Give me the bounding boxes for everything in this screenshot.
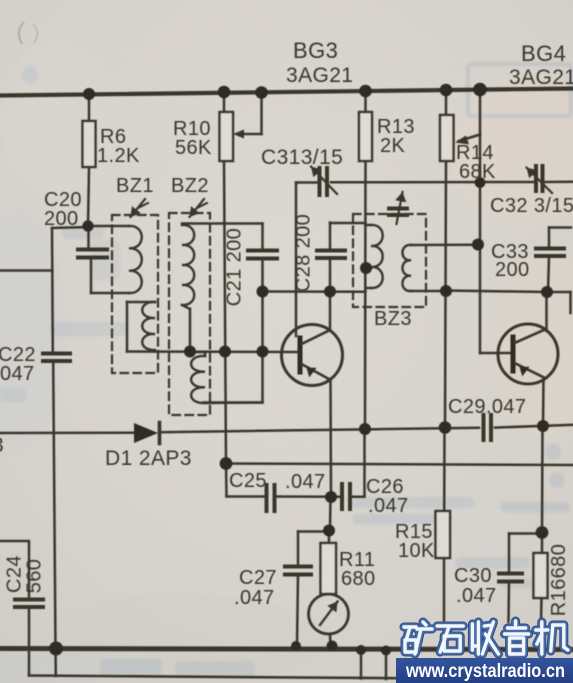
svg-text:www.crystalradio.cn: www.crystalradio.cn [405, 661, 565, 682]
